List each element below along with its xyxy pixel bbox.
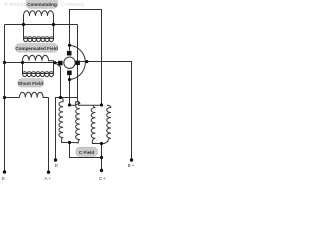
node T (100, 142, 103, 145)
winding below shunt label (20, 92, 49, 97)
wire W2 shunt row (5, 62, 59, 64)
node Q (68, 103, 71, 106)
label C Field (76, 147, 98, 156)
node shunt right tap (53, 61, 56, 64)
coil1 control winding (59, 98, 70, 143)
wire W1 horizontal from left rail to right turn-down (5, 24, 78, 26)
tap wire from shunt node down to P (56, 63, 61, 98)
wire left rail (4, 25, 6, 173)
svg-text:Compensated Field: Compensated Field (15, 46, 58, 51)
label Commutating (27, 0, 58, 8)
label Shunt Field (18, 79, 44, 87)
terminal E dot (3, 170, 6, 173)
coil3 C field (91, 105, 101, 143)
wire top rect: top brush up over to right down to W4 (70, 10, 102, 106)
wire A+ drop (48, 98, 50, 173)
node arc right (85, 60, 88, 63)
wire W3 right from P to coil2 feed (61, 97, 78, 99)
svg-text:D: D (55, 163, 58, 168)
shunt field arches (23, 55, 54, 62)
svg-text:Commutating: Commutating (27, 2, 57, 7)
node rail-W2 (3, 61, 6, 64)
terminal A+ dot (47, 171, 50, 174)
svg-text:B +: B + (128, 163, 135, 168)
coil4 C field right (102, 105, 111, 143)
brush right (76, 61, 80, 65)
wire W3 horizontal row (5, 97, 20, 99)
compensated winding rope row (24, 25, 54, 39)
node shunt left (21, 61, 24, 64)
wire coil2 bottom to R and down to S run (70, 143, 102, 158)
wire T down to S and C+ (101, 144, 103, 171)
node R (68, 141, 71, 144)
wire bottom brush down to Q (69, 75, 71, 105)
brush bottom (67, 71, 72, 76)
node B (52, 23, 55, 26)
node arc top (68, 44, 71, 47)
wire B+ run from right brush (80, 62, 132, 161)
wire W1 drop to right brush (77, 25, 79, 102)
commutating coil arches (24, 11, 54, 25)
node S (100, 156, 103, 159)
label Compensated Field (15, 44, 58, 52)
svg-text:E: E (2, 176, 5, 181)
node W4 (100, 103, 103, 106)
armature circle (64, 57, 75, 68)
svg-text:C Field: C Field (79, 150, 95, 155)
node rail-W3 (3, 96, 6, 99)
brush top (67, 51, 72, 56)
terminal C+ dot (100, 169, 103, 172)
wire D drop (56, 98, 61, 161)
coil2 C field left (70, 101, 80, 142)
svg-text:C +: C + (99, 176, 106, 181)
terminal B+ dot (130, 158, 133, 161)
armature quadrature arc (69, 45, 85, 79)
node P (59, 96, 62, 99)
brush left (58, 61, 63, 66)
terminal D dot (54, 158, 57, 161)
node A (22, 23, 25, 26)
node arc bottom (68, 78, 71, 81)
svg-text:Shunt Field: Shunt Field (18, 81, 43, 86)
wire W4 from Q to coils with hop over coil2 (70, 102, 102, 106)
svg-text:A +: A + (45, 176, 52, 181)
shunt block lower rope row (23, 63, 54, 74)
